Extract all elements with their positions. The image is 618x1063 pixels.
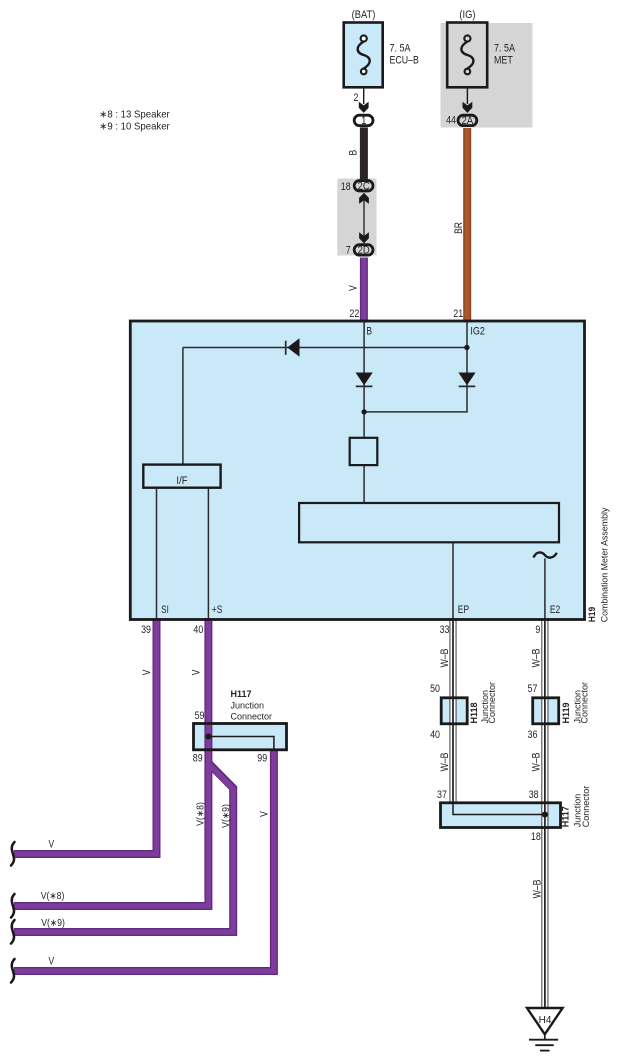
svg-text:39: 39 [141,624,151,636]
svg-text:EP: EP [458,604,470,616]
svg-text:Connector: Connector [579,682,589,724]
svg-text:2D: 2D [358,245,370,257]
svg-text:W–B: W–B [531,648,543,667]
svg-text:Connector: Connector [581,786,591,828]
svg-text:2: 2 [354,92,359,104]
svg-text:BR: BR [453,222,465,234]
svg-text:V(∗8): V(∗8) [41,890,65,901]
svg-text:99: 99 [257,753,267,765]
svg-text:Connector: Connector [487,682,497,724]
svg-text:40: 40 [430,729,440,741]
svg-text:H117: H117 [561,806,571,827]
svg-text:∗8 : 13 Speaker: ∗8 : 13 Speaker [99,109,170,120]
svg-text:MET: MET [494,55,513,67]
svg-text:V: V [49,839,55,851]
svg-text:B: B [366,325,372,337]
svg-text:33: 33 [440,624,450,636]
svg-text:40: 40 [193,624,203,636]
svg-text:W–B: W–B [439,648,451,667]
svg-text:(BAT): (BAT) [352,9,376,21]
svg-text:V: V [259,811,271,817]
svg-text:44: 44 [446,115,456,127]
svg-text:H119: H119 [561,702,571,723]
svg-text:W–B: W–B [439,752,451,771]
svg-text:2C: 2C [358,181,371,193]
svg-text:57: 57 [527,683,537,695]
svg-text:59: 59 [195,710,205,722]
svg-text:V(∗9): V(∗9) [41,917,65,928]
svg-text:V(∗9): V(∗9) [220,804,231,828]
svg-text:V(∗8): V(∗8) [195,802,206,826]
svg-text:1: 1 [361,116,367,128]
svg-text:E2: E2 [550,604,560,616]
svg-text:∗9 : 10 Speaker: ∗9 : 10 Speaker [99,121,170,132]
svg-text:B: B [348,149,360,155]
svg-text:V: V [348,285,360,291]
svg-text:Combination Meter Assembly: Combination Meter Assembly [599,507,609,622]
svg-text:V: V [49,956,55,968]
svg-text:38: 38 [529,789,539,801]
svg-text:9: 9 [535,624,540,636]
svg-text:V: V [191,669,203,675]
svg-text:W–B: W–B [531,752,543,771]
svg-text:I/F: I/F [176,475,187,487]
svg-text:7. 5A: 7. 5A [494,43,515,55]
svg-text:H19: H19 [587,607,597,623]
svg-text:IG2: IG2 [470,326,485,338]
svg-text:18: 18 [531,831,541,843]
svg-text:36: 36 [527,729,537,741]
svg-text:Junction: Junction [231,701,265,711]
svg-text:(IG): (IG) [459,9,475,21]
svg-text:22: 22 [349,308,359,320]
svg-text:2A: 2A [462,116,474,128]
svg-text:89: 89 [193,753,203,765]
svg-text:+S: +S [212,604,223,616]
svg-text:21: 21 [453,308,463,320]
svg-text:18: 18 [341,181,351,193]
svg-text:7: 7 [346,245,351,257]
svg-text:ECU–B: ECU–B [390,55,420,67]
svg-text:W–B: W–B [532,879,544,898]
svg-text:SI: SI [161,604,168,617]
svg-text:H4: H4 [539,1015,552,1026]
svg-text:H118: H118 [469,702,479,723]
svg-text:50: 50 [430,683,440,695]
svg-text:Connector: Connector [231,711,273,721]
svg-text:7. 5A: 7. 5A [390,43,411,55]
svg-text:37: 37 [437,789,447,801]
svg-text:H117: H117 [231,689,252,699]
svg-text:V: V [141,669,153,675]
